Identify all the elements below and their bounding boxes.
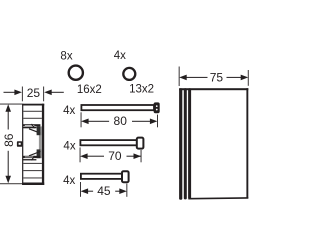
svg-text:86: 86 xyxy=(2,133,16,147)
svg-text:8x: 8x xyxy=(60,50,72,62)
dimension 75 extension line right xyxy=(247,70,250,86)
bracket left fixing notch xyxy=(17,141,22,147)
washer circle 13x2 xyxy=(123,68,135,80)
glass panel left edge bar 1 xyxy=(179,88,182,200)
bracket clamp mechanism top xyxy=(23,124,42,135)
svg-text:45: 45 xyxy=(97,184,111,198)
dimension 45 line and arrows xyxy=(81,188,127,194)
screw 70mm shaft xyxy=(80,140,137,145)
washer circle 16x2 xyxy=(69,66,83,80)
screw 70mm head xyxy=(137,138,144,149)
bracket slider grey bar xyxy=(39,127,42,156)
dimension 70 line and arrows xyxy=(80,153,141,159)
glass panel left edge bar 2 xyxy=(184,88,187,199)
screw 45mm head xyxy=(122,171,129,182)
svg-text:75: 75 xyxy=(210,70,224,84)
dimension 25 extension line left xyxy=(21,87,24,102)
glass panel right edge xyxy=(246,88,248,198)
svg-text:4x: 4x xyxy=(63,175,75,187)
dimension 86 extension line top xyxy=(0,103,22,106)
bracket internal line 3 xyxy=(23,162,42,165)
dimension 86 line with arrows xyxy=(5,104,11,183)
svg-text:4x: 4x xyxy=(114,50,126,62)
screw 45mm shaft xyxy=(81,174,123,179)
dimension 45 extension lines xyxy=(79,182,82,197)
svg-text:16x2: 16x2 xyxy=(77,84,102,96)
bracket internal line 2 xyxy=(23,117,42,120)
dimension 75 line and arrows xyxy=(179,75,248,81)
svg-text:4x: 4x xyxy=(63,105,75,117)
glass panel bottom edge xyxy=(188,197,248,199)
dimension 25 extension line right xyxy=(42,87,45,102)
dimension 75 extension line left xyxy=(178,67,181,87)
glass panel top edge xyxy=(179,88,248,90)
bracket internal line 1 xyxy=(23,110,42,113)
mounting bracket side view outline xyxy=(22,104,44,185)
bracket internal line 5 xyxy=(23,177,42,180)
svg-text:13x2: 13x2 xyxy=(129,84,154,96)
dimension 80 extension lines xyxy=(80,112,83,127)
bracket internal line 4 xyxy=(23,169,42,172)
dimension 70 extension lines xyxy=(79,147,82,162)
svg-text:80: 80 xyxy=(114,114,128,128)
dimension 86 extension line bottom xyxy=(0,182,22,185)
bracket clamp mechanism bottom xyxy=(23,149,42,160)
dimension 25 left arrow xyxy=(4,90,22,96)
dimension 80 line and arrows xyxy=(81,119,157,125)
svg-text:4x: 4x xyxy=(63,141,75,153)
svg-text:70: 70 xyxy=(108,149,122,163)
screw 80mm shaft xyxy=(81,105,154,110)
dimension 25 right arrow xyxy=(44,90,64,96)
glass panel left edge bar 3 xyxy=(188,88,191,199)
screw 80mm head xyxy=(154,102,160,113)
svg-text:25: 25 xyxy=(27,86,41,100)
